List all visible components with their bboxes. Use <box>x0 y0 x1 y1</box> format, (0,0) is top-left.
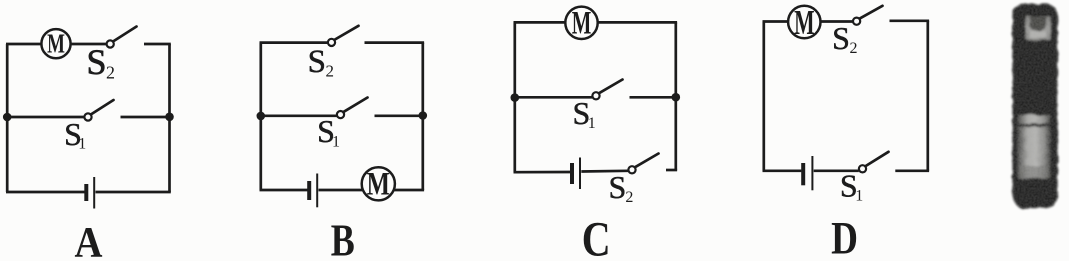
node A right junction <box>165 113 174 122</box>
node B right junction <box>419 111 428 120</box>
svg-text:D: D <box>831 212 858 261</box>
wire B top fixed-contact segment <box>365 41 425 44</box>
wire A right rail upper <box>168 44 171 117</box>
svg-text:2: 2 <box>850 40 858 57</box>
wire A middle fixed-contact segment <box>121 116 170 119</box>
svg-text:S: S <box>609 169 627 205</box>
motor M (D) <box>788 4 820 42</box>
switch S2 (B) <box>328 26 359 46</box>
wire A right rail lower <box>168 117 171 192</box>
node C right junction <box>672 93 681 102</box>
wire C bottom fixed-contact segment <box>666 169 677 172</box>
wire C middle fixed-contact segment <box>630 96 676 99</box>
battery (C) <box>572 158 580 190</box>
switch S1 (D) <box>859 152 889 173</box>
node B left junction <box>257 112 266 121</box>
battery (B) <box>309 174 317 208</box>
label S2 (C) <box>609 169 634 206</box>
wire B bottom middle segment <box>319 189 425 192</box>
wire B bottom segment <box>260 189 308 192</box>
svg-text:A: A <box>75 218 103 261</box>
motor M (B) <box>362 166 395 202</box>
wire A bottom left segment <box>6 191 85 194</box>
wire B middle segment <box>261 114 337 117</box>
label S2 (A) <box>86 42 115 83</box>
wire A top segment <box>6 43 107 46</box>
wire C left rail <box>513 22 516 172</box>
switch S1 (C) <box>592 80 622 100</box>
label S1 (A) <box>64 116 86 153</box>
svg-text:2: 2 <box>625 189 633 206</box>
wire A middle segment <box>7 116 84 119</box>
svg-text:2: 2 <box>325 62 334 81</box>
wire B middle fixed-contact segment <box>375 114 423 117</box>
label S2 (B) <box>308 44 334 80</box>
wire A bottom right segment <box>96 191 171 194</box>
wire D bottom fixed-contact segment <box>895 169 929 172</box>
wire C right rail <box>674 22 677 170</box>
label S1 (D) <box>840 167 863 204</box>
label S1 (C) <box>573 95 596 132</box>
wire C middle segment <box>515 96 593 99</box>
wire D bottom middle segment <box>814 169 859 172</box>
svg-text:1: 1 <box>588 115 596 132</box>
label S2 (D) <box>832 20 857 57</box>
svg-text:S: S <box>308 44 326 80</box>
svg-text:1: 1 <box>855 188 863 205</box>
svg-text:M: M <box>572 4 592 41</box>
wire D top segment <box>763 20 853 23</box>
svg-text:B: B <box>331 216 355 261</box>
switch S2 (C) <box>628 154 658 174</box>
wire D left rail <box>762 22 765 171</box>
node C left junction <box>511 93 520 102</box>
svg-text:S: S <box>832 20 850 56</box>
switch S2 (A) <box>107 27 137 48</box>
node A left junction <box>3 113 12 122</box>
svg-text:1: 1 <box>78 136 86 153</box>
wire C top segment <box>514 21 567 24</box>
svg-text:M: M <box>47 29 65 59</box>
switch S1 (B) <box>337 98 368 119</box>
svg-text:C: C <box>582 211 611 261</box>
wire A left rail <box>6 44 9 192</box>
wire C top right segment <box>597 21 677 24</box>
wire D right rail <box>926 21 929 171</box>
wire D top fixed-contact segment <box>890 19 930 22</box>
svg-text:S: S <box>86 42 106 82</box>
battery (D) <box>803 156 812 190</box>
wire B left rail <box>259 43 262 190</box>
wire B right rail <box>421 43 424 190</box>
wire C bottom left segment <box>514 171 571 174</box>
wire B top segment <box>260 41 329 44</box>
label S1 (B) <box>317 113 340 150</box>
wire C bottom middle segment <box>581 169 628 172</box>
motor M (A) <box>41 29 70 59</box>
wire A top fixed-contact segment <box>144 43 171 46</box>
svg-text:M: M <box>794 4 814 42</box>
switch S1 (A) <box>84 100 113 121</box>
svg-text:1: 1 <box>332 133 340 150</box>
svg-text:2: 2 <box>106 63 115 83</box>
switch S2 (D) <box>853 6 883 25</box>
svg-text:M: M <box>367 166 390 202</box>
motor M (C) <box>565 4 597 41</box>
wire D bottom left segment <box>763 169 802 172</box>
battery (A) <box>86 177 94 209</box>
